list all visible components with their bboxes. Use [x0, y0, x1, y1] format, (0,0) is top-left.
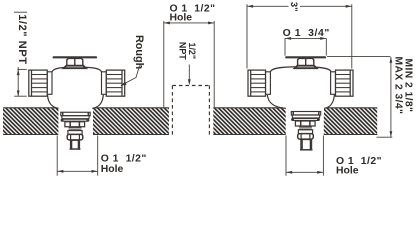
bonnet nut (right view) [295, 121, 315, 126]
MIDDLE: dimension O 1 1/2 Hole (top) [170, 3, 216, 23]
union flange left (left view) [47, 72, 52, 95]
handle stem nut (left view) [67, 58, 83, 65]
dimension: 1/2" NPT (left view) [14, 12, 27, 96]
valve body (left view) [48, 67, 104, 113]
svg-text:1/2" NPT: 1/2" NPT [16, 14, 28, 64]
svg-text:MIN 2 1/8": MIN 2 1/8" [403, 59, 414, 113]
union flange right (left view) [102, 72, 107, 95]
wall section W1 (left of left valve) [3, 108, 58, 135]
union flange left (right view) [266, 72, 271, 95]
handle stem base (right view) [295, 66, 317, 69]
label: 3 inch rotated [289, 2, 300, 12]
supply tube (right view) [300, 139, 313, 150]
supply tube (left view) [70, 140, 81, 150]
supply nut (left view) [67, 134, 83, 140]
dimension: O 1 1/2 Hole (left view bottom) [57, 136, 97, 176]
threaded port right (right view) [336, 70, 354, 96]
handle stem base (left view) [64, 66, 86, 69]
bonnet nut (left view) [65, 122, 85, 127]
svg-text:Hole: Hole [101, 164, 124, 175]
dashed rough-in hole (middle) [172, 86, 209, 135]
escutcheon plate 1 (left view) [61, 112, 90, 116]
label: Rough with leader (left view) [120, 35, 144, 86]
label: 1/2" NPT rotated (left view) [16, 14, 28, 64]
svg-text:Hole: Hole [170, 12, 193, 23]
label: 1/2" NPT rotated (middle) with leader [178, 42, 197, 85]
handle bar (left view) [53, 56, 97, 58]
dark collar ring (right view) [291, 118, 320, 121]
union flange right (right view) [331, 72, 336, 95]
svg-text:MAX 2 3/4": MAX 2 3/4" [392, 57, 403, 115]
svg-text:Rough: Rough [133, 35, 145, 69]
washer stack (right view) [298, 126, 312, 134]
dimension: 3 inch (right view top) [247, 4, 352, 68]
handle bar (right view) [285, 56, 326, 58]
label: MIN 2 1/8" / MAX 2 3/4" rotated [392, 57, 413, 115]
dark collar ring (left view) [61, 119, 90, 122]
threaded port left (left view) [29, 70, 47, 96]
wall section W3 (between dashed hole and right valve) [213, 108, 285, 135]
escutcheon plate 2 (right view) [292, 115, 319, 118]
svg-text:3": 3" [289, 2, 300, 12]
handle stem nut (right view) [298, 58, 314, 65]
valve body (right view) [267, 67, 334, 114]
threaded port right (left view) [106, 70, 124, 96]
svg-text:NPT: NPT [178, 42, 188, 60]
svg-text:Hole: Hole [336, 165, 359, 176]
wall section W2 (between left valve and dashed hole) [93, 108, 169, 135]
escutcheon plate 2 (left view) [62, 116, 89, 119]
escutcheon plate 1 (right view) [291, 112, 320, 116]
supply nut (right view) [298, 134, 314, 140]
dimension: O 1 3/4 (right view handle) [283, 28, 330, 39]
dimension: O 1 1/2 Hole (right view bottom) [286, 136, 323, 176]
washer stack (left view) [68, 127, 82, 135]
wall section W4 (right of right valve) [324, 108, 377, 135]
threaded port left (right view) [248, 70, 266, 96]
dimension: MIN/MAX height (right view) [327, 56, 392, 137]
